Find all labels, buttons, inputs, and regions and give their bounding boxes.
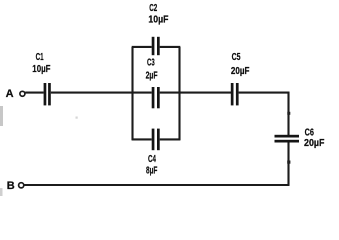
wire	[287, 92, 290, 135]
wire	[160, 138, 181, 140]
svg-text:C2: C2	[149, 3, 157, 14]
svg-text:10µF: 10µF	[32, 64, 50, 75]
svg-text:C4: C4	[148, 154, 156, 165]
svg-text:A: A	[6, 88, 14, 100]
svg-text:8µF: 8µF	[146, 165, 157, 176]
svg-text:B: B	[7, 180, 15, 192]
node A	[6, 88, 25, 100]
svg-text:10µF: 10µF	[148, 14, 168, 25]
capacitor C3	[146, 57, 160, 108]
node B	[7, 180, 24, 192]
wire	[132, 138, 152, 140]
capacitor C6	[275, 127, 325, 149]
wire	[239, 92, 290, 94]
svg-text:C5: C5	[232, 52, 241, 63]
wire	[287, 143, 290, 186]
wire	[160, 92, 180, 94]
wire	[25, 92, 43, 94]
capacitor C2	[148, 3, 168, 55]
wire	[132, 46, 152, 48]
svg-text:C6: C6	[305, 127, 315, 138]
wire	[51, 92, 134, 94]
svg-text:20µF: 20µF	[231, 66, 250, 77]
wire	[160, 46, 181, 48]
capacitor C5	[231, 52, 250, 106]
capacitor C4	[146, 129, 160, 177]
svg-text:C3: C3	[147, 57, 155, 68]
wire	[24, 184, 289, 186]
capacitor C1	[32, 52, 51, 106]
svg-text:20µF: 20µF	[304, 138, 325, 149]
wire	[178, 47, 180, 140]
wire	[133, 92, 152, 94]
wire	[180, 92, 232, 94]
svg-text:C1: C1	[36, 52, 44, 63]
wire	[131, 47, 133, 140]
svg-text:2µF: 2µF	[146, 71, 158, 82]
